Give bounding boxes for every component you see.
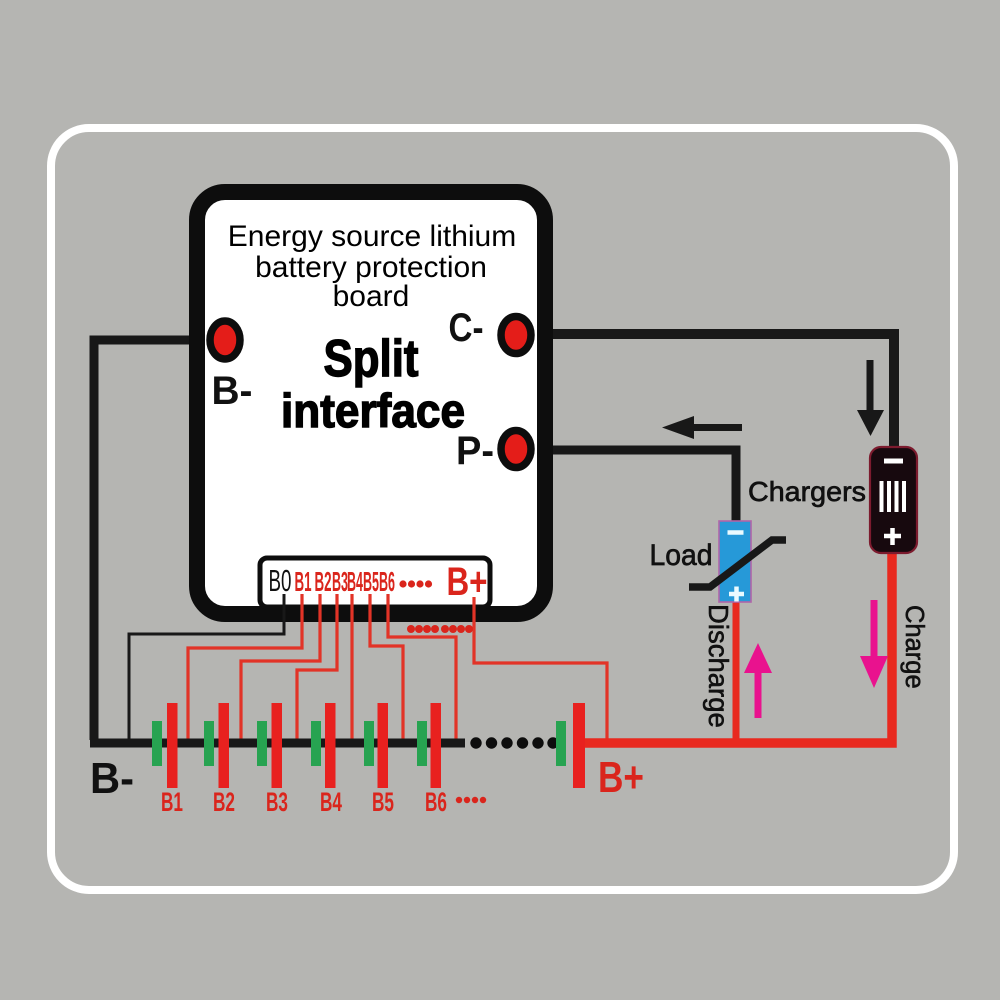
wire pin B+ to pack positive — [474, 597, 607, 744]
wire C- to charger top — [522, 334, 894, 448]
ellipsis dots below board — [407, 625, 473, 633]
battery cell B2 — [204, 703, 229, 788]
svg-text:Split: Split — [324, 330, 419, 388]
arrow current into charger — [857, 360, 884, 436]
board label Split interface — [281, 330, 465, 437]
svg-text:Energy source lithium: Energy source lithium — [228, 220, 516, 253]
battery cell Bn (last) — [556, 703, 585, 788]
wire load to positive bus — [733, 602, 740, 743]
svg-text:Load: Load — [650, 539, 713, 572]
wire pin B3 to junction 3 — [297, 594, 337, 744]
svg-text:Chargers: Chargers — [748, 476, 866, 507]
wire P- to load top — [522, 450, 736, 522]
arrow charge direction — [860, 600, 888, 688]
positive bus wire pack to charger — [585, 552, 892, 743]
wire pin B6 to junction 6 — [388, 594, 456, 744]
wire pin B1 to junction 1 — [188, 594, 302, 744]
connector strip J1 — [260, 558, 490, 607]
svg-text:interface: interface — [281, 384, 465, 437]
svg-text:B6: B6 — [379, 566, 395, 597]
battery cell B5 — [364, 703, 388, 788]
svg-text:B0: B0 — [269, 563, 292, 598]
svg-text:B2: B2 — [315, 566, 332, 597]
wire pin B5 to junction 5 — [370, 594, 403, 744]
svg-text:B1: B1 — [161, 787, 183, 817]
svg-text:B-: B- — [90, 754, 134, 803]
board title text — [228, 220, 516, 313]
svg-text:B4: B4 — [347, 566, 363, 597]
svg-text:B5: B5 — [363, 566, 379, 597]
svg-text:board: board — [333, 280, 410, 313]
wire pin B2 to junction 2 — [241, 594, 320, 744]
svg-text:B3: B3 — [266, 787, 288, 817]
wire pin B0 to pack negative — [129, 594, 284, 742]
arrow current out of P- — [662, 416, 742, 439]
svg-text:B4: B4 — [320, 787, 342, 817]
pack ellipsis dots — [470, 737, 558, 748]
svg-text:B5: B5 — [372, 787, 394, 817]
svg-text:B6: B6 — [425, 787, 447, 817]
arrow discharge direction — [744, 643, 772, 718]
load switch SW1 — [719, 521, 751, 602]
svg-text:Discharge: Discharge — [703, 604, 734, 728]
wire B- terminal to left rail — [94, 340, 216, 740]
svg-text:B+: B+ — [447, 560, 488, 604]
load switch lever — [689, 540, 786, 587]
wire pin B4 to junction 4 — [350, 594, 353, 744]
svg-text:Charge: Charge — [900, 605, 928, 689]
svg-text:B-: B- — [212, 369, 253, 413]
terminal B- — [210, 321, 240, 359]
svg-text:B+: B+ — [598, 753, 644, 802]
battery cell B6 — [417, 703, 441, 788]
svg-text:C-: C- — [449, 306, 484, 350]
terminal C- — [501, 317, 531, 354]
battery cell B3 — [257, 703, 282, 788]
battery pack negative bus wire — [90, 739, 465, 748]
battery cell B1 — [152, 703, 178, 788]
charger BT1 — [870, 447, 917, 553]
panel frame — [51, 128, 954, 890]
svg-text:B3: B3 — [332, 566, 348, 597]
cell label ellipsis dots — [456, 797, 486, 803]
svg-text:B1: B1 — [295, 566, 312, 597]
svg-text:P-: P- — [456, 429, 494, 473]
terminal P- — [501, 431, 531, 468]
connector ellipsis dots — [399, 580, 432, 587]
svg-text:B2: B2 — [213, 787, 235, 817]
battery cell B4 — [311, 703, 336, 788]
protection board U1 — [197, 192, 545, 614]
